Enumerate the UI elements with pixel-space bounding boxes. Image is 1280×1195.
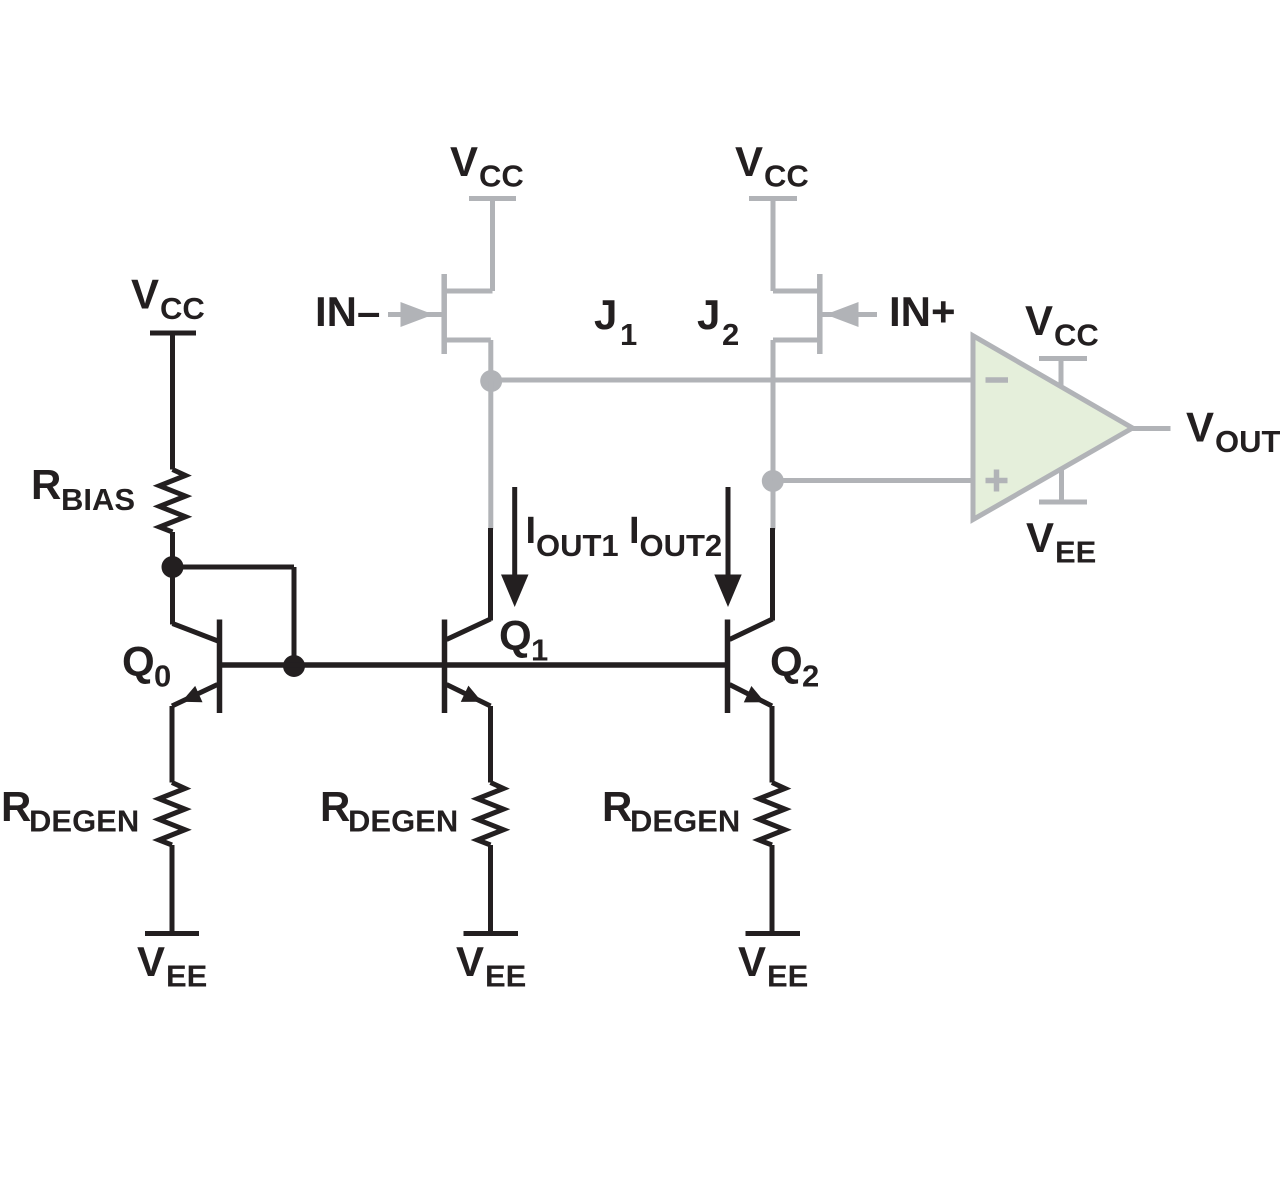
label VEE (middle) xyxy=(456,938,526,994)
wire Q0 emitter to R_DEGEN xyxy=(170,706,175,783)
svg-text:EE: EE xyxy=(1055,535,1096,570)
wire J1 source down to node xyxy=(488,340,493,382)
op-amp VEE stub wire xyxy=(1059,468,1064,502)
transistor Q0 emitter arrowhead xyxy=(178,686,203,710)
svg-text:BIAS: BIAS xyxy=(61,482,135,517)
svg-text:EE: EE xyxy=(485,959,526,994)
node base rail junction dot xyxy=(283,655,305,677)
label VCC (R_BIAS) xyxy=(131,271,205,327)
svg-text:DEGEN: DEGEN xyxy=(630,804,740,839)
svg-text:CC: CC xyxy=(1054,318,1099,353)
current arrow I_OUT2 xyxy=(714,487,741,607)
label R_DEGEN (left) xyxy=(1,783,139,839)
resistor R_DEGEN (left) xyxy=(159,783,185,845)
label I_OUT2 xyxy=(629,510,722,563)
transistor Q0 emitter diagonal xyxy=(172,685,218,707)
svg-text:V: V xyxy=(735,138,763,185)
power VEE bar (left) xyxy=(145,931,199,936)
label VCC (op-amp) xyxy=(1025,297,1099,353)
wire Q2 emitter to R_DEGEN xyxy=(770,706,775,783)
op-amp plus input symbol xyxy=(986,470,1008,492)
JFET J2 drain lead xyxy=(773,289,822,294)
wire J1 source to op-amp inverting input xyxy=(491,378,972,383)
transistor Q1 emitter diagonal xyxy=(447,685,491,707)
wire J1 drain to VCC xyxy=(490,199,495,292)
transistor Q2 emitter arrowhead xyxy=(744,686,769,710)
power VCC bar (J2 drain supply) xyxy=(749,196,797,201)
node J2 source junction dot xyxy=(762,470,784,492)
svg-text:Q: Q xyxy=(770,638,803,685)
svg-text:2: 2 xyxy=(802,659,819,694)
svg-text:OUT2: OUT2 xyxy=(640,528,723,563)
current arrow I_OUT1 xyxy=(501,487,529,607)
resistor R_DEGEN (middle) xyxy=(478,783,504,845)
transistor Q2 emitter diagonal xyxy=(730,685,773,707)
power VEE bar (right) xyxy=(746,931,801,936)
transistor Q1 emitter arrowhead xyxy=(461,686,486,710)
svg-text:I: I xyxy=(629,510,640,552)
svg-text:J: J xyxy=(594,291,617,338)
wire base rail xyxy=(220,662,728,668)
svg-text:V: V xyxy=(738,938,766,985)
svg-text:V: V xyxy=(450,138,478,185)
svg-text:J: J xyxy=(697,291,720,338)
svg-text:V: V xyxy=(137,938,165,985)
JFET J2 gate arrowhead xyxy=(826,302,859,327)
svg-text:I: I xyxy=(526,510,537,552)
label I_OUT1 xyxy=(526,510,619,563)
svg-text:V: V xyxy=(1026,514,1054,561)
wire node to diode connection (horizontal) xyxy=(173,565,295,570)
svg-text:R: R xyxy=(31,461,61,508)
svg-text:CC: CC xyxy=(479,159,524,194)
power VCC bar (J1 drain supply) xyxy=(469,196,516,201)
transistor Q0 collector diagonal xyxy=(173,624,219,642)
svg-text:2: 2 xyxy=(722,317,739,352)
label VOUT xyxy=(1186,404,1280,460)
power VEE bar (op-amp) xyxy=(1039,500,1087,505)
transistor Q1 collector wire xyxy=(488,528,493,621)
JFET J2 gate wire xyxy=(821,312,877,317)
label Q1 xyxy=(499,612,548,668)
label VCC (J1) xyxy=(450,138,524,194)
svg-text:1: 1 xyxy=(620,317,637,352)
svg-text:V: V xyxy=(131,271,159,318)
svg-text:R: R xyxy=(1,783,31,830)
wire R_DEGEN to VEE (right) xyxy=(770,845,775,931)
label Q2 xyxy=(770,638,819,694)
power VEE bar (middle) xyxy=(464,931,519,936)
label VEE (right) xyxy=(738,938,808,994)
wire J2 source down toward Q2 collector xyxy=(771,481,776,530)
label R_DEGEN (middle) xyxy=(320,783,458,839)
svg-text:IN–: IN– xyxy=(315,288,380,335)
svg-text:OUT: OUT xyxy=(1215,424,1280,459)
JFET J1 channel bar xyxy=(441,274,447,354)
power VCC bar (R_BIAS) xyxy=(150,331,196,336)
svg-text:CC: CC xyxy=(160,291,205,326)
wire R_BIAS to node xyxy=(170,532,175,567)
svg-text:CC: CC xyxy=(764,159,809,194)
svg-text:EE: EE xyxy=(767,959,808,994)
wire node to Q0 collector xyxy=(170,567,175,625)
JFET J2 channel bar xyxy=(817,274,823,354)
label J1 xyxy=(594,291,637,352)
wire diode connection down to base rail xyxy=(292,567,297,666)
op-amp VCC stub wire xyxy=(1059,359,1064,389)
svg-text:Q: Q xyxy=(122,638,155,685)
svg-text:R: R xyxy=(602,783,632,830)
svg-text:R: R xyxy=(320,783,350,830)
svg-text:0: 0 xyxy=(154,659,171,694)
transistor Q1 collector diagonal xyxy=(447,619,491,640)
transistor Q1 base bar xyxy=(442,620,448,714)
JFET J1 gate arrowhead xyxy=(401,302,434,327)
JFET J1 source lead xyxy=(442,338,491,343)
wire R_DEGEN to VEE (left) xyxy=(170,845,175,931)
node J1 source junction dot xyxy=(480,370,502,392)
svg-text:EE: EE xyxy=(166,959,207,994)
power VCC bar (op-amp) xyxy=(1039,356,1087,361)
wire J2 drain to VCC xyxy=(771,199,776,292)
label Q0 xyxy=(122,638,171,694)
label R_BIAS xyxy=(31,461,135,517)
wire J2 source down to node xyxy=(771,340,776,481)
label VCC (J2) xyxy=(735,138,809,194)
transistor Q2 collector wire xyxy=(770,528,775,621)
svg-text:IN+: IN+ xyxy=(889,288,956,335)
transistor Q0 base bar xyxy=(217,620,223,714)
label R_DEGEN (right) xyxy=(602,783,740,839)
transistor Q2 base bar xyxy=(725,620,731,714)
svg-text:Q: Q xyxy=(499,612,532,659)
wire op-amp output xyxy=(1133,426,1171,431)
JFET J1 gate wire xyxy=(388,312,443,317)
wire Q1 emitter to R_DEGEN xyxy=(488,706,493,783)
label VEE (left) xyxy=(137,938,207,994)
svg-text:OUT1: OUT1 xyxy=(536,528,619,563)
transistor Q2 collector diagonal xyxy=(730,619,773,640)
wire J2 source to op-amp non-inverting input xyxy=(773,478,973,483)
resistor R_DEGEN (right) xyxy=(759,783,785,845)
wire R_DEGEN to VEE (middle) xyxy=(488,845,493,931)
label VEE (op-amp) xyxy=(1026,514,1096,570)
svg-text:V: V xyxy=(1186,404,1214,451)
svg-text:DEGEN: DEGEN xyxy=(29,804,139,839)
resistor R_BIAS xyxy=(160,470,186,532)
op-amp minus input symbol xyxy=(986,377,1009,383)
label J2 xyxy=(697,291,739,352)
wire J1 source down toward Q1 collector xyxy=(488,381,493,530)
svg-text:DEGEN: DEGEN xyxy=(348,804,458,839)
op-amp U1 body xyxy=(973,336,1133,520)
JFET J2 source lead xyxy=(773,338,822,343)
JFET J1 drain lead xyxy=(442,289,493,294)
node R_BIAS/Q0 junction dot xyxy=(162,556,184,578)
svg-text:1: 1 xyxy=(531,633,548,668)
svg-text:V: V xyxy=(456,938,484,985)
wire VCC to R_BIAS xyxy=(170,333,175,470)
svg-text:V: V xyxy=(1025,297,1053,344)
